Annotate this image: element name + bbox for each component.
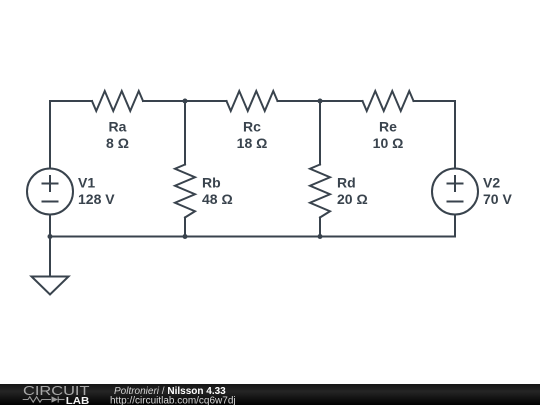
svg-text:10 Ω: 10 Ω [373,135,404,151]
wire ground stub [49,237,51,277]
ground node junction dot [48,234,53,239]
voltage source V2 [432,169,478,215]
wire V2 bottom to rail [454,215,456,237]
svg-text:20 Ω: 20 Ω [337,191,368,207]
bottom node under Rb junction dot [183,234,188,239]
ground [32,277,69,295]
wire bottom rail [50,236,455,238]
label V1 128 V [78,175,115,208]
svg-text:18 Ω: 18 Ω [237,135,268,151]
wire top-right corner (Re to V2 top) [414,101,456,169]
wire node C to Re [320,100,363,102]
bottom node under Rd junction dot [318,234,323,239]
wire Rd to bottom rail [319,218,321,237]
svg-text:Ra: Ra [109,119,127,135]
wire Rb to bottom rail [184,218,186,237]
svg-text:128 V: 128 V [78,191,115,207]
svg-text:Rc: Rc [243,119,261,135]
node B junction dot [183,99,188,104]
resistor Rd [310,165,330,218]
wire node C down to Rd [319,101,321,165]
svg-text:48 Ω: 48 Ω [202,191,233,207]
resistor Ra [92,91,143,111]
label Rb 48 ohm [202,175,233,208]
resistor Re [363,91,414,111]
label Rc 18 ohm [237,119,268,152]
svg-text:8 Ω: 8 Ω [106,135,129,151]
label V2 70 V [483,175,512,208]
wire V1 bottom to ground node [49,215,51,237]
svg-text:V1: V1 [78,175,95,191]
wire top-left corner (V1 top to Ra) [50,101,92,169]
node C junction dot [318,99,323,104]
wire Ra to node B [143,100,185,102]
svg-text:http://circuitlab.com/cq6w7dj: http://circuitlab.com/cq6w7dj [110,396,236,405]
label Re 10 ohm [373,119,404,152]
wire node B down to Rb [184,101,186,165]
svg-text:LAB: LAB [66,396,90,405]
wire node B to Rc [185,100,227,102]
svg-text:V2: V2 [483,175,500,191]
resistor Rc [227,91,278,111]
svg-text:70 V: 70 V [483,191,512,207]
label Ra 8 ohm [106,119,129,152]
CircuitLab logo circuit doodle: wire + resistor + diode [23,396,65,402]
label Rd 20 ohm [337,175,368,208]
voltage source V1 [27,169,73,215]
svg-text:Rb: Rb [202,175,221,191]
resistor Rb [175,165,195,218]
svg-text:Re: Re [379,119,397,135]
svg-text:Rd: Rd [337,175,356,191]
wire Rc to node C [278,100,321,102]
